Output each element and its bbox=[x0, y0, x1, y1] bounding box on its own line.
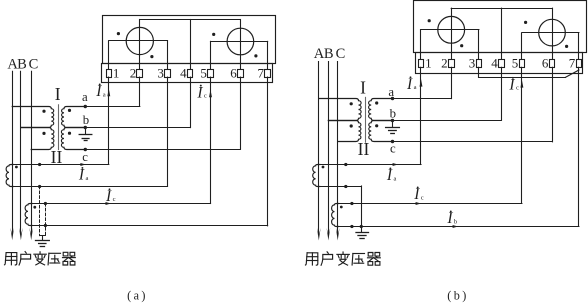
svg-text:a: a bbox=[388, 85, 394, 99]
current transformer CT1 on phase A (b) bbox=[313, 165, 320, 187]
wire: node a to terminal2 riser (b) bbox=[393, 98, 452, 100]
wire: terminal1 riser down to Ia line (a) bbox=[108, 77, 110, 164]
CT ground stem (b) bbox=[361, 226, 363, 232]
svg-text:I: I bbox=[55, 84, 61, 104]
PT polarity dot secondary II (b) bbox=[375, 124, 378, 127]
wire: CT1 return to terminal3 (a) bbox=[12, 186, 167, 188]
meter case (a) kWh-meter outline bbox=[103, 16, 276, 64]
arrow Ia right (a) bbox=[80, 163, 85, 166]
node b dot (a) bbox=[84, 126, 87, 129]
svg-text:7: 7 bbox=[569, 56, 576, 71]
svg-text:c: c bbox=[113, 196, 116, 203]
wire: element1 voltage path terminal1-terminal3 (b) bbox=[421, 29, 479, 31]
CT ground connector (a) bbox=[40, 235, 46, 237]
PT polarity dot primary II (b) bbox=[350, 124, 353, 127]
meter case (b) kWh-meter outline bbox=[414, 1, 587, 53]
wire: terminal1 riser down to Ia line (b) bbox=[420, 67, 422, 164]
wire: terminal3 riser down to CT1 return (a) bbox=[167, 77, 169, 186]
junction dot ground tap on Ib line (b) bbox=[360, 225, 363, 228]
node a dot (b) bbox=[391, 97, 394, 100]
wire: element2 voltage path terminal5-terminal7 (b) bbox=[522, 32, 579, 34]
arrow Ic right (a) bbox=[106, 202, 111, 205]
svg-text:c: c bbox=[204, 93, 207, 100]
wire: CT1 return down to Ib line (b) bbox=[361, 186, 363, 226]
svg-text:II: II bbox=[358, 139, 370, 159]
terminal 1 square (b) bbox=[419, 60, 424, 68]
wire: phase C line (b) bbox=[337, 62, 339, 235]
wire: vertical through element1 to terminal 2 (b) bbox=[451, 8, 453, 59]
current coil element 2 (a) circle bbox=[227, 28, 254, 55]
terminal strip (a) bbox=[102, 64, 273, 83]
arrow Ia right (b) bbox=[393, 163, 398, 166]
svg-text:I: I bbox=[446, 210, 453, 227]
svg-text:I: I bbox=[413, 186, 420, 203]
terminal 5 square (a) bbox=[208, 70, 214, 78]
svg-text:I: I bbox=[78, 167, 85, 184]
junction dot on Ic line (a) bbox=[44, 202, 47, 205]
svg-text:a: a bbox=[394, 175, 397, 182]
polarity dot element2 lower-right (b) bbox=[565, 45, 568, 48]
terminal 5 square (b) bbox=[520, 60, 525, 68]
wire: terminal2 riser down to node a wire (b) bbox=[451, 67, 453, 98]
dashed ground wire from CT1 return (a) bbox=[39, 186, 41, 235]
PT b-phase ground bar1 (a) bbox=[79, 134, 92, 136]
svg-text:5: 5 bbox=[512, 56, 519, 71]
wire: node a to terminal2 riser (a) bbox=[85, 106, 140, 108]
PT secondary winding II (a) bbox=[61, 128, 85, 150]
svg-text:C: C bbox=[336, 46, 346, 62]
junction dot on CT1 return (b) bbox=[344, 185, 347, 188]
CT ground bar3 (b) bbox=[360, 238, 364, 240]
current coil element 1 (b) circle bbox=[438, 16, 465, 43]
wire: node c to terminal6 riser (a) bbox=[85, 149, 240, 151]
polarity dot element1 lower-right (a) bbox=[150, 55, 153, 58]
svg-text:C: C bbox=[29, 57, 39, 73]
node a dot (a) bbox=[84, 105, 87, 108]
terminal 7 square (a) bbox=[265, 70, 271, 78]
PT primary winding II B-C (b) bbox=[328, 121, 361, 142]
polarity dot element2 upper-left (a) bbox=[212, 33, 215, 36]
CT1 polarity dot (b) bbox=[322, 166, 325, 169]
PT secondary winding I (a) bbox=[62, 107, 86, 128]
wire: Ia line CT1 to terminal1 (a) bbox=[12, 164, 109, 166]
svg-text:I: I bbox=[95, 83, 102, 100]
current transformer CT2 on phase C (b) bbox=[332, 204, 339, 227]
wire: top bus to terminal 4 (b) bbox=[501, 8, 503, 59]
terminal 6 square (a) bbox=[238, 70, 244, 78]
svg-text:I: I bbox=[406, 76, 413, 93]
PT core (a) bbox=[58, 105, 60, 150]
svg-text:I: I bbox=[386, 167, 393, 184]
wire: element2 right stub to terminal 7 (a) bbox=[267, 41, 269, 69]
arrow Ic right (b) bbox=[416, 202, 421, 205]
terminal strip (b) bbox=[416, 53, 583, 74]
PT polarity dot primary II (a) bbox=[42, 132, 45, 135]
svg-text:6: 6 bbox=[230, 65, 237, 80]
dashed ground wire from Ic line (a) bbox=[45, 204, 47, 236]
PT polarity dot secondary I (a) bbox=[68, 109, 71, 112]
svg-text:1: 1 bbox=[113, 65, 120, 80]
svg-text:3: 3 bbox=[469, 56, 476, 71]
wire: phase A line (a) bbox=[12, 71, 14, 234]
wire: vertical through element2 to terminal 6 (b) bbox=[552, 8, 554, 59]
node c dot (b) bbox=[391, 140, 394, 143]
wire: CT1 return horizontal (b) bbox=[319, 186, 362, 188]
arrow Ia up into terminal 1 (a) bbox=[107, 89, 110, 97]
arrow phase A down (b) bbox=[317, 228, 321, 241]
PT polarity dot secondary I (b) bbox=[375, 101, 378, 104]
wire: terminal3 stub down to link (b) bbox=[478, 67, 480, 77]
CT2 polarity dot (b) bbox=[340, 206, 343, 209]
CT ground bar3 (a) bbox=[40, 246, 44, 248]
svg-text:c: c bbox=[82, 150, 88, 164]
PT secondary winding II (b) bbox=[369, 121, 393, 142]
wire: terminal7 riser down to CT2 return (a) bbox=[267, 77, 269, 226]
svg-text:I: I bbox=[196, 84, 203, 101]
PT polarity dot secondary II (a) bbox=[68, 132, 71, 135]
svg-text:B: B bbox=[17, 57, 27, 73]
svg-text:c: c bbox=[421, 194, 424, 201]
svg-text:c: c bbox=[516, 85, 519, 92]
wire: element1 right stub to terminal 3 (a) bbox=[167, 41, 169, 69]
CT1 polarity dot (a) bbox=[15, 166, 18, 169]
arrow Ia up into terminal 1 (b) bbox=[420, 79, 423, 87]
PT primary winding I A-B (a) bbox=[12, 107, 54, 128]
svg-text:2: 2 bbox=[130, 65, 137, 80]
wire: top bus to terminal 4 (a) bbox=[190, 20, 192, 70]
node c dot (a) bbox=[84, 148, 87, 151]
wire: slant link up to terminal7 riser (b) bbox=[565, 70, 579, 77]
wire: terminal6 riser down to node c wire (a) bbox=[240, 77, 242, 149]
polarity dot element2 upper-left (b) bbox=[524, 21, 527, 24]
arrow phase A down (a) bbox=[10, 228, 14, 241]
polarity dot element1 upper-left (b) bbox=[428, 19, 431, 22]
polarity dot element1 upper-left (a) bbox=[117, 32, 120, 35]
wire: phase A line (b) bbox=[318, 62, 320, 235]
svg-text:a: a bbox=[86, 175, 89, 182]
junction dot on Ic line (b) bbox=[350, 202, 353, 205]
PT core (b) bbox=[365, 97, 367, 142]
terminal 6 square (b) bbox=[550, 60, 555, 68]
wire: phase C line (a) bbox=[31, 71, 33, 234]
wire: Ic line CT2 to terminal5 (a) bbox=[31, 203, 210, 205]
wire: phase B line (b) bbox=[328, 62, 330, 235]
svg-text:1: 1 bbox=[425, 56, 432, 71]
wire: element1 voltage path terminal1-terminal3 (a) bbox=[109, 40, 168, 42]
svg-text:6: 6 bbox=[542, 56, 549, 71]
svg-text:7: 7 bbox=[258, 65, 265, 80]
polarity dot element1 lower-right (b) bbox=[460, 44, 463, 47]
arrow phase C down (a) bbox=[29, 228, 33, 241]
svg-text:5: 5 bbox=[200, 65, 207, 80]
svg-text:3: 3 bbox=[157, 65, 164, 80]
svg-text:2: 2 bbox=[441, 56, 448, 71]
terminal 2 square (a) bbox=[137, 70, 143, 78]
wire: meter internal top bus (a) bbox=[140, 19, 241, 21]
wire: element2 voltage path terminal5-terminal7 (a) bbox=[211, 41, 268, 43]
wire: element2 left stub to terminal 5 (a) bbox=[210, 41, 212, 69]
svg-text:(a): (a) bbox=[127, 288, 148, 302]
wire: terminal6 riser down to node c wire (b) bbox=[552, 67, 554, 142]
PT polarity dot primary I (a) bbox=[42, 110, 45, 113]
CT ground bar2 (a) bbox=[39, 243, 46, 245]
terminal 4 square (b) bbox=[499, 60, 505, 68]
PT polarity dot primary I (b) bbox=[350, 102, 353, 105]
wire: element1 left stub to terminal 1 (a) bbox=[108, 41, 110, 69]
PT secondary winding I (b) bbox=[369, 99, 393, 121]
wire: terminal5 riser down to Ic line (b) bbox=[521, 67, 523, 203]
wire: terminal5 riser down to Ic line (a) bbox=[210, 77, 212, 203]
junction dot on CT2 return (a) bbox=[44, 224, 47, 227]
svg-text:I: I bbox=[508, 77, 515, 94]
terminal 3 square (b) bbox=[477, 60, 482, 68]
PT primary winding I A-B (b) bbox=[319, 99, 361, 121]
svg-text:4: 4 bbox=[180, 65, 187, 80]
wire: terminal4 riser down to node b wire (b) bbox=[501, 67, 503, 120]
svg-text:(b): (b) bbox=[447, 288, 468, 302]
wire: Ic line CT2 to terminal5 (b) bbox=[338, 203, 522, 205]
PT primary winding II B-C (a) bbox=[21, 128, 54, 150]
CT ground stem (a) bbox=[42, 236, 44, 240]
arrow phase C down (b) bbox=[336, 228, 340, 241]
junction dot on Ia line (b) bbox=[344, 163, 347, 166]
svg-text:I: I bbox=[105, 188, 112, 205]
arrow phase B down (a) bbox=[19, 228, 23, 241]
PT b-phase ground bar2 (b) bbox=[389, 130, 397, 132]
svg-text:a: a bbox=[414, 84, 417, 91]
wire: element2 left stub to terminal 5 (b) bbox=[521, 33, 523, 60]
terminal 4 square (a) bbox=[188, 70, 193, 78]
CT ground bar2 (b) bbox=[358, 235, 366, 237]
wire: node b to terminal4 riser (a) bbox=[85, 127, 190, 129]
svg-text:b: b bbox=[390, 106, 396, 120]
wire: terminal4 riser down to node b wire (a) bbox=[190, 77, 192, 128]
wire: node c to terminal6 riser (b) bbox=[393, 141, 553, 143]
svg-text:b: b bbox=[83, 113, 89, 127]
node b dot (b) bbox=[391, 119, 394, 122]
svg-text:a: a bbox=[103, 91, 106, 98]
polarity dot element2 lower-right (a) bbox=[254, 54, 257, 57]
PT b-phase ground bar3 (a) bbox=[84, 140, 87, 142]
PT b-phase ground bar3 (b) bbox=[391, 133, 395, 135]
wire: phase B line (a) bbox=[20, 71, 22, 234]
wire: Ib common return to terminal7 (b) bbox=[338, 226, 579, 228]
arrow Ic up into terminal 5 (b) bbox=[520, 80, 523, 88]
terminal 1 square (a) bbox=[107, 70, 112, 78]
wire: element2 right stub to terminal 7 (b) bbox=[578, 33, 580, 60]
CT ground bar1 (b) bbox=[356, 232, 369, 234]
svg-text:B: B bbox=[324, 46, 334, 62]
text user transformer (b) bbox=[306, 253, 308, 265]
current coil element 2 (b) circle bbox=[539, 19, 566, 46]
arrow phase B down (b) bbox=[327, 228, 331, 241]
svg-text:a: a bbox=[82, 90, 88, 104]
arrow Ib right (b) bbox=[453, 225, 458, 228]
wire: terminal7 riser down to Ib line (b) bbox=[578, 67, 580, 226]
wire: Ia line CT1 to terminal1 (b) bbox=[319, 164, 421, 166]
svg-text:c: c bbox=[390, 141, 396, 155]
terminal 2 square (b) bbox=[449, 60, 455, 68]
terminal 3 square (a) bbox=[165, 70, 171, 78]
junction dot CT2 return (b) bbox=[350, 225, 353, 228]
junction dot on CT1 return (a) bbox=[38, 185, 41, 188]
wire: element1 right stub to terminal 3 (b) bbox=[478, 30, 480, 60]
CT ground bar1 (a) bbox=[36, 240, 50, 242]
terminal 7 square (b) bbox=[577, 60, 582, 68]
current coil element 1 (a) circle bbox=[126, 27, 153, 54]
wire: meter internal top bus (b) bbox=[451, 8, 552, 10]
junction dot on Ia line (a) bbox=[38, 163, 41, 166]
wire: vertical through element1 to terminal 2 (a) bbox=[139, 20, 141, 70]
PT b-phase ground stem (b) bbox=[392, 120, 394, 126]
PT b-phase ground bar1 (b) bbox=[386, 127, 400, 129]
current transformer CT1 on phase A (a) bbox=[6, 165, 13, 187]
PT b-phase ground bar2 (a) bbox=[82, 138, 89, 140]
CT2 polarity dot (a) bbox=[33, 206, 36, 209]
wire: node b to terminal4 riser (b) bbox=[393, 120, 502, 122]
wire: CT2 return to terminal7 (a) bbox=[31, 225, 267, 227]
wire: vertical through element2 to terminal 6 (a) bbox=[240, 20, 242, 70]
wire: terminal2 riser down to node a wire (a) bbox=[139, 77, 141, 106]
arrow Ic up into terminal 5 (a) bbox=[209, 90, 212, 98]
text user transformer (a) bbox=[5, 253, 7, 265]
wire: link terminal3 to terminal7 (b) bbox=[479, 77, 566, 79]
svg-text:4: 4 bbox=[491, 56, 498, 71]
wire: element1 left stub to terminal 1 (b) bbox=[420, 30, 422, 60]
PT b-phase ground stem (a) bbox=[85, 128, 87, 134]
current transformer CT2 on phase C (a) bbox=[25, 204, 32, 226]
svg-text:I: I bbox=[360, 78, 366, 98]
